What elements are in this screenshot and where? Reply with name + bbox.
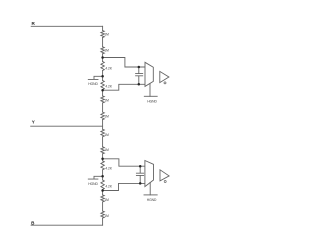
svg-text:HGND: HGND bbox=[147, 198, 157, 202]
wire: vertical chain bbox=[102, 26, 104, 225]
resistor R11 1M bbox=[101, 195, 104, 202]
capacitor C2 bbox=[136, 166, 143, 183]
svg-text:4.2K: 4.2K bbox=[105, 67, 112, 71]
wire: R block bottom stub to amp bbox=[103, 84, 145, 90]
wire: R block top stub to amp bbox=[103, 58, 145, 68]
svg-text:4.2K: 4.2K bbox=[105, 167, 112, 171]
junction node 1 bbox=[101, 56, 104, 59]
svg-text:1M: 1M bbox=[104, 198, 109, 202]
svg-text:Y: Y bbox=[32, 120, 35, 125]
junction node 5 bbox=[101, 175, 104, 178]
junction node 3 bbox=[101, 89, 104, 92]
node B input line bbox=[31, 224, 103, 226]
resistor R9 4.2K bbox=[101, 161, 104, 170]
resistor R12 1M bbox=[101, 211, 104, 218]
resistor R5 1M bbox=[101, 96, 104, 103]
node Y input line bbox=[31, 125, 103, 127]
wire: Y block bottom stub to amp bbox=[103, 183, 145, 190]
amplifier U1 trapezoid bbox=[145, 62, 153, 86]
resistor R10 4.2K bbox=[101, 180, 104, 189]
svg-text:1M: 1M bbox=[104, 49, 109, 53]
svg-text:1M: 1M bbox=[104, 214, 109, 218]
wire: HGND tap R block bbox=[88, 76, 102, 79]
transducer T1 triangle bbox=[160, 71, 169, 82]
wire: U2 ground tail bbox=[149, 183, 151, 195]
svg-text:1M: 1M bbox=[104, 115, 109, 119]
resistor R3 4.2K bbox=[101, 62, 104, 71]
svg-text:HGND: HGND bbox=[147, 99, 157, 103]
resistor R6 1M bbox=[101, 112, 104, 120]
junction node 8 bbox=[138, 83, 141, 86]
transducer T2 triangle bbox=[160, 170, 169, 181]
junction node 2 bbox=[101, 75, 104, 78]
svg-text:R: R bbox=[32, 21, 36, 26]
ground HGND under U2 bbox=[144, 194, 157, 196]
svg-text:1M: 1M bbox=[104, 33, 109, 37]
amplifier U2 trapezoid bbox=[145, 161, 154, 187]
wire: U1 ground tail bbox=[149, 83, 151, 96]
junction node 9 bbox=[139, 165, 142, 168]
junction node 10 bbox=[139, 182, 142, 185]
svg-text:1M: 1M bbox=[104, 148, 109, 152]
wire: Y block top stub to amp bbox=[103, 159, 145, 166]
node R input line bbox=[31, 25, 102, 27]
svg-text:HGND: HGND bbox=[88, 82, 98, 86]
svg-text:1M: 1M bbox=[104, 98, 109, 102]
svg-text:1M: 1M bbox=[104, 133, 109, 137]
capacitor C1 bbox=[136, 67, 143, 84]
resistor R1 1M bbox=[101, 31, 104, 38]
svg-text:HGND: HGND bbox=[88, 182, 98, 186]
junction node 6 bbox=[101, 189, 104, 192]
ground HGND under U1 bbox=[144, 95, 157, 97]
svg-text:4.2K: 4.2K bbox=[105, 85, 112, 89]
junction node 4 bbox=[101, 158, 104, 161]
resistor R7 1M bbox=[101, 129, 104, 137]
resistor R4 4.2K bbox=[101, 81, 104, 90]
wire: HGND tap Y block bbox=[88, 176, 102, 179]
junction node 7 bbox=[138, 66, 141, 69]
svg-text:4.2K: 4.2K bbox=[105, 185, 112, 189]
resistor R8 1M bbox=[101, 147, 104, 154]
resistor R2 1M bbox=[101, 47, 104, 54]
